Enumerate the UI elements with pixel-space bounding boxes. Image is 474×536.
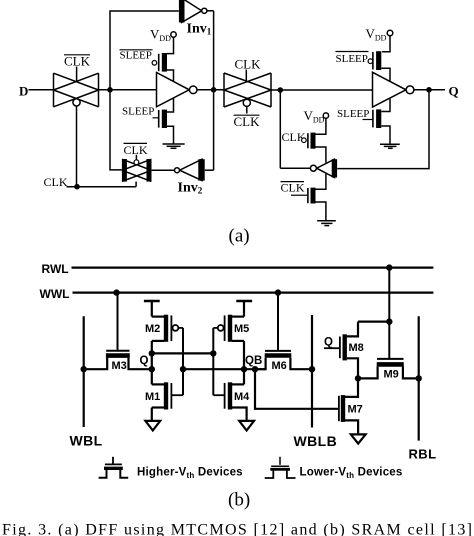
wire VDD to keeper PMOS [316, 118, 326, 134]
junction QB to M2 M1 gates [180, 366, 186, 372]
wire M8 source to read column [358, 321, 389, 323]
label SLEEPbar of output PMOS [336, 52, 369, 66]
junction QB M5 M4 [241, 366, 247, 372]
wire keeper output to node C line [280, 167, 310, 169]
svg-text:SLEEP: SLEEP [120, 50, 152, 62]
wire WWL [73, 292, 434, 294]
wire QB cross-couple lower [183, 368, 266, 370]
wire VDD to sleep PMOS of output inverter [382, 36, 390, 52]
VDD stub of M5 [236, 301, 252, 317]
svg-text:Fig. 3. (a) DFF using MTCMOS: Fig. 3. (a) DFF using MTCMOS [12] and (b… [2, 522, 472, 536]
sleep NMOS of output inverter [363, 98, 391, 144]
wire gate vertical M5 M4 [212, 328, 214, 395]
wire gate vertical M2 M1 [182, 328, 184, 395]
transmission gate TG1 [54, 67, 99, 107]
inverter Inv1 [182, 0, 214, 23]
wire Inv1 output down to node B and down to Inv2 input [213, 11, 215, 170]
ground arrow of M4 [239, 421, 254, 431]
VDD terminal of keeper tristate [304, 108, 329, 125]
wire inverter to Q [414, 89, 445, 91]
svg-text:D: D [19, 84, 28, 99]
transistor keeper NMOS [308, 174, 326, 221]
svg-text:M1: M1 [145, 391, 160, 403]
VDD terminal of output inverter [366, 26, 393, 43]
svg-text:CLK: CLK [124, 143, 148, 157]
wire TG2 to output inverter, node C [271, 89, 373, 91]
wire node C down to keeper output [279, 90, 281, 168]
transistor M3 [84, 293, 152, 370]
junction WBLB M6 [309, 366, 315, 372]
svg-text:VDD: VDD [150, 27, 171, 44]
wire D to TG1 [29, 89, 54, 91]
junction WWL M6 gate [275, 289, 281, 295]
ground arrow of M7 [351, 434, 366, 443]
junction M8 M9 M7 [355, 375, 361, 381]
wire Q cross-couple upper [152, 352, 214, 354]
transmission gate TGfb feedback [122, 155, 151, 187]
VDD terminal of master inverter [150, 27, 176, 44]
svg-text:SLEEP: SLEEP [122, 106, 154, 118]
transistor M9 [358, 359, 419, 379]
svg-text:(a): (a) [229, 226, 250, 247]
sleep PMOS of master inverter [152, 53, 173, 82]
net WBLB line [311, 315, 313, 428]
net WBL line [83, 316, 85, 427]
svg-text:SLEEP: SLEEP [337, 108, 369, 120]
label CLKbar of TG2 [234, 114, 261, 129]
net RBL line [418, 316, 420, 440]
junction Q upper [149, 350, 155, 356]
svg-text:(b): (b) [228, 490, 250, 511]
node Q junction [426, 87, 432, 93]
svg-text:M2: M2 [145, 323, 160, 335]
legend symbol lower-Vth transistor [265, 457, 296, 478]
ground of keeper tristate [317, 221, 336, 226]
junction WBL M3 [81, 366, 87, 372]
svg-text:Q: Q [449, 84, 459, 99]
svg-text:CLK: CLK [44, 175, 68, 189]
svg-text:Higher-Vth Devices: Higher-Vth Devices [137, 467, 243, 481]
sleep PMOS of output inverter [368, 51, 390, 81]
junction RBL M9 [416, 375, 422, 381]
junction RWL read column [386, 264, 392, 270]
label CLKbar of TG1 [64, 54, 91, 69]
transistor M7 [339, 378, 358, 434]
transistor M1 [152, 382, 183, 420]
label CLKbar of TGfb [124, 143, 148, 157]
svg-text:CLK: CLK [234, 114, 261, 129]
svg-text:Lower-Vth Devices: Lower-Vth Devices [300, 467, 403, 481]
svg-text:M8: M8 [349, 342, 364, 354]
svg-text:M3: M3 [112, 360, 127, 372]
transistor M6 [255, 293, 312, 370]
transistor M5 [213, 315, 244, 342]
wire TG1 to inverter, node A [99, 89, 157, 91]
svg-text:Inv1: Inv1 [187, 22, 212, 37]
svg-text:CLK: CLK [281, 181, 305, 195]
ground of output inverter [380, 144, 400, 148]
op-amp output inverter triangle [373, 72, 414, 107]
svg-text:M6: M6 [272, 360, 287, 372]
node B junction [211, 87, 217, 93]
transistor M8 [324, 322, 358, 379]
svg-text:Q: Q [140, 355, 149, 367]
wire node A up and to Inv1 input [110, 11, 179, 90]
svg-text:SLEEP: SLEEP [336, 53, 368, 65]
svg-text:M9: M9 [384, 369, 399, 381]
wire RWL down read column [388, 268, 390, 359]
ground arrow of M1 [145, 421, 160, 431]
junction read column [386, 318, 392, 324]
svg-text:CLK: CLK [64, 54, 91, 69]
label SLEEPbar of master PMOS [120, 50, 153, 62]
transmission gate TG2 [224, 70, 271, 114]
svg-text:VDD: VDD [366, 26, 387, 43]
op-amp master inverter triangle [157, 73, 198, 107]
svg-text:RBL: RBL [409, 446, 437, 461]
svg-text:WBLB: WBLB [294, 433, 338, 449]
label CLKbar of keeper NMOS [281, 181, 308, 196]
wire Q down to keeper input [337, 90, 429, 169]
svg-text:RWL: RWL [42, 262, 69, 276]
junction WWL M3 gate [113, 289, 119, 295]
wire node B to TG2 [197, 89, 224, 91]
transistor keeper PMOS [302, 133, 326, 163]
svg-text:Inv2: Inv2 [178, 181, 203, 196]
svg-text:CLK: CLK [235, 57, 262, 72]
inverter Inv2 [152, 159, 214, 180]
wire CLK [67, 186, 137, 188]
transistor M4 [213, 382, 246, 420]
PART B [2, 262, 472, 536]
svg-text:WWL: WWL [40, 287, 70, 301]
wire QB vertical [243, 341, 245, 385]
ground of master inverter [163, 144, 185, 148]
svg-text:M4: M4 [234, 391, 250, 403]
wire Q vertical [151, 341, 153, 385]
svg-text:M5: M5 [234, 323, 249, 335]
wire VDD to sleep PMOS [167, 37, 174, 53]
PART A [19, 0, 459, 247]
junction QB M6 [252, 366, 258, 372]
svg-text:QB: QB [245, 355, 262, 367]
junction CLK [74, 184, 80, 190]
node C junction [278, 87, 284, 93]
transistor M2 [152, 315, 183, 342]
wire RWL [72, 267, 434, 269]
svg-text:M7: M7 [348, 404, 363, 416]
node A junction [107, 87, 113, 93]
VDD stub of M2 [144, 301, 160, 317]
junction Q to M5 M4 gates [210, 350, 216, 356]
legend symbol higher-Vth transistor [99, 457, 129, 478]
wire QB down to M7 gate [255, 369, 339, 409]
svg-text:Q: Q [324, 337, 333, 349]
wire node A down to feedback TG [110, 90, 122, 170]
op-amp keeper tristate inverter triangle pointing left [310, 159, 334, 177]
sleep NMOS of master inverter [153, 98, 174, 144]
wire CLK up to TG1 gate [76, 106, 78, 187]
svg-text:WBL: WBL [70, 432, 103, 448]
svg-text:VDD: VDD [304, 108, 325, 125]
junction Q lower [149, 366, 155, 372]
